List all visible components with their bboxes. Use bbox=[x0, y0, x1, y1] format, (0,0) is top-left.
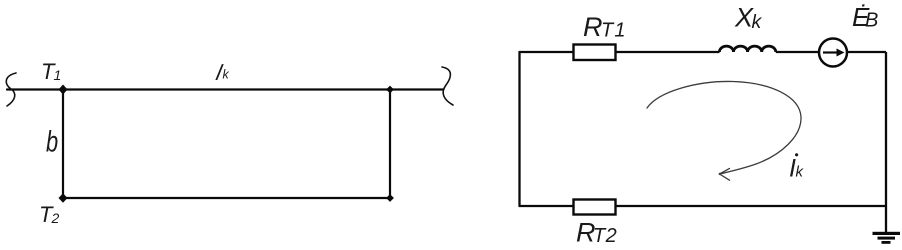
svg-text:b: b bbox=[46, 124, 58, 158]
svg-text:R: R bbox=[583, 12, 603, 42]
svg-text:1: 1 bbox=[54, 67, 62, 83]
svg-text:T2: T2 bbox=[593, 225, 617, 247]
svg-text:B: B bbox=[865, 10, 878, 32]
svg-text:k: k bbox=[752, 11, 763, 33]
svg-text:k: k bbox=[223, 68, 230, 82]
svg-text:T1: T1 bbox=[601, 20, 627, 42]
svg-text:2: 2 bbox=[51, 210, 60, 226]
